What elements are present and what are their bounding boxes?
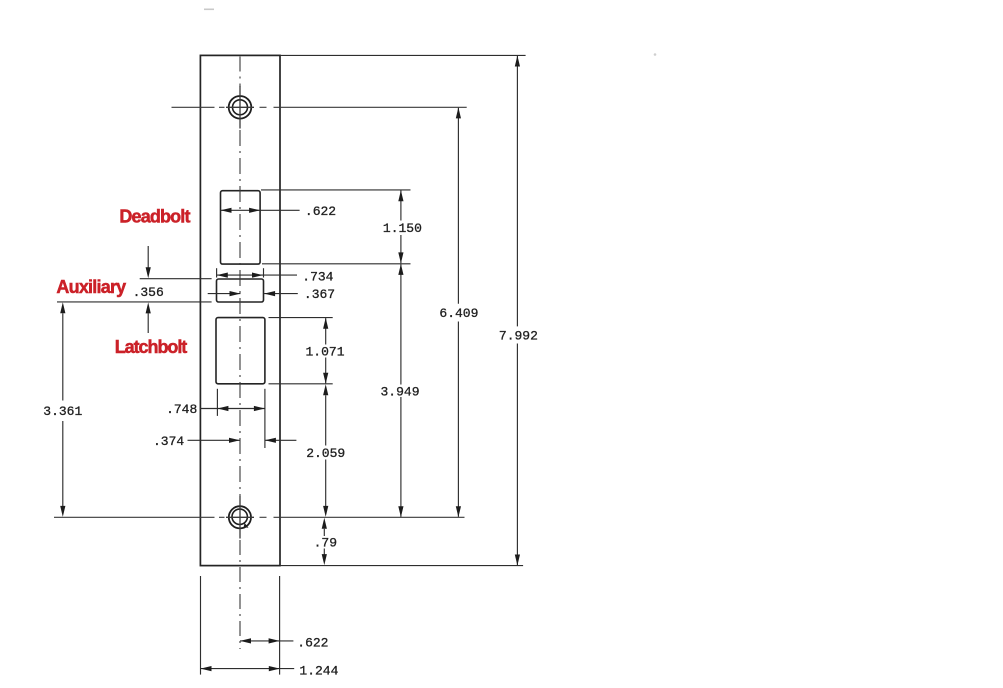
deadbolt top extension line [261, 189, 411, 191]
.79 bottom arrow [322, 554, 327, 565]
bottom screw hole [229, 506, 251, 528]
svg-text:Auxiliary: Auxiliary [56, 277, 126, 297]
.622 bottom dimension line [240, 640, 293, 642]
top hole centerline dash L [219, 106, 225, 108]
auxiliary left extension tick [216, 268, 218, 277]
svg-text:6.409: 6.409 [439, 306, 478, 321]
.748 left arrow [217, 406, 228, 411]
3.361 bottom arrow [60, 506, 65, 517]
svg-text:Latchbolt: Latchbolt [115, 337, 188, 357]
3.361 dimension line lower [62, 421, 64, 506]
bottom hole centerline dash R [260, 516, 267, 518]
faceplate outline [200, 55, 280, 565]
.79 top arrow [322, 518, 327, 529]
1.244 dimension line [201, 668, 295, 670]
auxiliary right extension tick [263, 268, 265, 277]
right bottom extension line below plate [279, 576, 281, 675]
svg-text:.79: .79 [314, 536, 337, 551]
bottom edge extension line [280, 565, 523, 567]
.374 right dimension line [265, 439, 297, 441]
vertical centerline lower [239, 540, 241, 649]
svg-text:1.244: 1.244 [299, 664, 338, 679]
1.244 right arrow [269, 666, 280, 671]
2.059 dimension line lower [325, 460, 327, 507]
svg-text:.734: .734 [302, 270, 333, 285]
svg-text:.367: .367 [304, 287, 335, 302]
svg-text:3.949: 3.949 [380, 384, 419, 399]
svg-text:.622: .622 [305, 204, 336, 219]
3.949 dimension line upper [400, 264, 402, 384]
latchbolt top extension line [269, 317, 333, 319]
1.150 dimension line upper [400, 190, 402, 220]
bottom hole centerline dash L [219, 516, 225, 518]
svg-text:.356: .356 [133, 285, 164, 300]
.79 dimension line upper [323, 529, 325, 536]
.734 right arrow [252, 273, 263, 278]
6.409 dimension line upper [457, 108, 459, 304]
deadbolt bottom extension line [262, 263, 411, 265]
.367 right arrow [264, 291, 275, 296]
.356 bottom arrow line [147, 313, 149, 333]
deadbolt cutout [221, 191, 261, 264]
svg-text:.374: .374 [153, 434, 184, 449]
3.949 bottom arrow [398, 506, 403, 517]
.622 bottom left arrow [240, 638, 251, 643]
.748 right arrow [254, 406, 265, 411]
svg-text:7.992: 7.992 [499, 329, 538, 344]
.356 top arrow [146, 267, 151, 278]
top hole horizontal crosshair [226, 106, 254, 108]
1.071 dimension line upper [325, 318, 327, 344]
.374 left arrow [229, 438, 240, 443]
latchbolt cutout [216, 318, 265, 384]
top hole centerline left [172, 106, 215, 108]
svg-text:.748: .748 [166, 402, 197, 417]
.622 right arrow [249, 208, 260, 213]
6.409 top arrow [456, 107, 461, 118]
vertical centerline mid [239, 130, 241, 496]
latchbolt bottom extension line [269, 383, 333, 385]
svg-text:Deadbolt: Deadbolt [119, 207, 190, 227]
auxiliary bottom extension line [57, 301, 212, 303]
.622 bottom right arrow [269, 638, 280, 643]
bottom hole centerline left [54, 516, 215, 518]
top edge extension line [280, 54, 525, 56]
top hole centerline dash R [260, 106, 267, 108]
bottom hole centerline right [274, 516, 465, 518]
1.244 left arrow [201, 666, 212, 671]
2.059 bottom arrow [323, 506, 328, 517]
6.409 dimension line lower [457, 322, 459, 517]
.374 left dimension line [188, 439, 241, 441]
.367 left arrow [230, 291, 241, 296]
latchbolt left lower extension tick [216, 389, 218, 416]
.367 right dimension line [264, 293, 298, 295]
7.992 top arrow [515, 56, 520, 67]
svg-text:3.361: 3.361 [43, 404, 82, 419]
1.071 top arrow [323, 318, 328, 329]
bottom hole vertical crosshair [239, 496, 241, 539]
.79 dimension line lower [323, 549, 325, 555]
.356 bottom arrow [146, 302, 151, 313]
7.992 dimension line upper [516, 56, 518, 327]
7.992 bottom arrow [515, 555, 520, 566]
2.059 dimension line upper [325, 395, 327, 445]
.734 left arrow [217, 273, 228, 278]
left bottom extension line below plate [200, 576, 202, 675]
.734 dimension line [217, 274, 297, 276]
.367 left dimension line [208, 293, 241, 295]
svg-text:1.071: 1.071 [305, 345, 344, 360]
svg-text:1.150: 1.150 [383, 221, 422, 236]
latchbolt right lower extension tick [264, 389, 266, 448]
1.150 bottom arrow [398, 252, 403, 263]
1.071 dimension line lower [325, 358, 327, 384]
3.949 top arrow [398, 264, 403, 275]
top hole centerline right [274, 106, 467, 108]
6.409 bottom arrow [456, 506, 461, 517]
3.361 dimension line upper [62, 313, 64, 400]
.622 deadbolt width dimension line [221, 209, 300, 211]
7.992 dimension line lower [516, 344, 518, 566]
faint artifact dot [654, 53, 657, 56]
.622 left arrow [221, 208, 232, 213]
2.059 top arrow [323, 384, 328, 395]
3.361 top arrow [60, 302, 65, 313]
auxiliary cutout [217, 279, 264, 302]
1.150 dimension line lower [400, 235, 402, 263]
bottom hole horizontal crosshair [226, 516, 254, 518]
svg-text:2.059: 2.059 [306, 446, 345, 461]
auxiliary top extension line [140, 278, 212, 280]
3.949 dimension line lower [400, 397, 402, 517]
.374 right arrow [265, 438, 276, 443]
faint artifact top [204, 9, 214, 11]
1.150 top arrow [398, 190, 403, 201]
.748 dimension line [200, 408, 265, 410]
vertical centerline [239, 57, 241, 88]
.356 top arrow line [147, 246, 149, 268]
svg-text:.622: .622 [297, 636, 328, 651]
top screw hole [229, 96, 252, 119]
top hole vertical crosshair [239, 86, 241, 129]
1.071 bottom arrow [323, 373, 328, 384]
